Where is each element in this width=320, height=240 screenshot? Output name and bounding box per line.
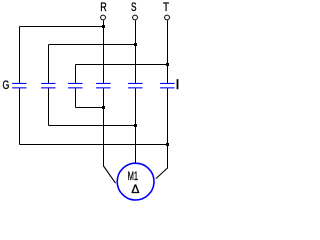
svg-text:M1: M1: [128, 169, 139, 183]
svg-text:Δ: Δ: [131, 182, 139, 196]
svg-text:R: R: [100, 0, 107, 14]
svg-text:T: T: [163, 0, 170, 14]
svg-text:S: S: [131, 0, 137, 14]
svg-text:G: G: [3, 78, 10, 92]
